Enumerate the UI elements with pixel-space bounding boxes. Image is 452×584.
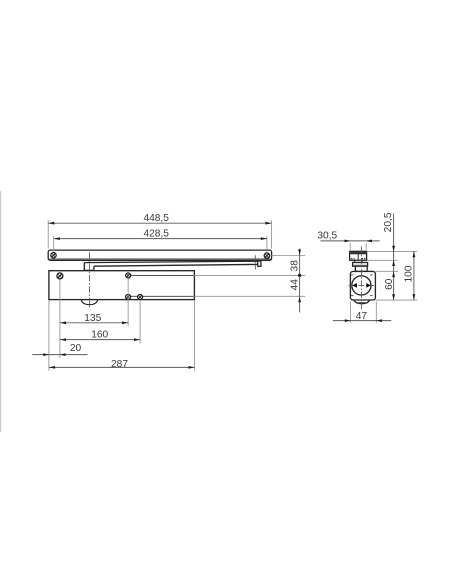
- dim text 44: [289, 279, 300, 291]
- svg-text:47: 47: [356, 311, 368, 322]
- body screw top-left: [57, 273, 63, 279]
- slide arm bottom edge: [94, 264, 258, 266]
- body interior line lower screws: [128, 295, 194, 297]
- arm end cap: [258, 261, 261, 266]
- svg-text:60: 60: [384, 278, 395, 290]
- pinion boss below body: [81, 300, 97, 305]
- dim text 47: [356, 311, 368, 322]
- slide rail: [48, 250, 271, 260]
- extension line rail screw right: [270, 255, 305, 257]
- dim 47 extension right: [375, 302, 377, 323]
- dim 30,5 extension right: [365, 243, 367, 250]
- spring power circle: [352, 276, 371, 295]
- dim text 20,5: [383, 212, 394, 232]
- body interior line upper screws: [128, 274, 194, 276]
- slider neck: [355, 260, 362, 262]
- extension line left screw down: [59, 280, 61, 358]
- svg-text:135: 135: [84, 313, 101, 324]
- svg-text:448,5: 448,5: [143, 213, 169, 224]
- arm slider shoe: [84, 263, 95, 271]
- dim line 38 and 44 vertical: [298, 249, 301, 313]
- dim text 135: [84, 313, 101, 324]
- dim text 428,5: [143, 229, 169, 240]
- svg-text:20,5: 20,5: [383, 212, 394, 232]
- dim 30,5 extension left: [349, 243, 351, 250]
- dim line 448,5: [48, 222, 271, 225]
- screw hole mark bottom-right: [370, 295, 373, 297]
- svg-text:44: 44: [289, 279, 300, 291]
- dim text 287: [111, 359, 128, 370]
- dim text 448,5: [143, 213, 169, 224]
- svg-text:428,5: 428,5: [143, 229, 169, 240]
- dim text 20: [70, 343, 82, 354]
- extension body bottom right: [375, 299, 417, 301]
- circle horizontal centerline: [349, 284, 375, 286]
- dim text 160: [91, 330, 108, 341]
- screw hole mark bottom-left: [351, 295, 354, 297]
- dim 428,5 extension left: [53, 236, 55, 252]
- dim text 30,5: [317, 231, 337, 242]
- svg-text:287: 287: [111, 359, 128, 370]
- dim line 160: [60, 338, 140, 341]
- dim line 20: [32, 353, 87, 356]
- adjust arrow right: [366, 283, 371, 288]
- dim text 100: [403, 265, 414, 282]
- dim 428,5 extension right: [266, 236, 268, 252]
- arm cross-section: [353, 263, 368, 267]
- extension line screw x140 down: [139, 300, 141, 343]
- extension line screws x128 down: [127, 278, 129, 326]
- body screw bottom-right: [138, 295, 143, 300]
- svg-text:100: 100: [403, 265, 414, 282]
- side vertical centerline: [360, 247, 362, 310]
- dim line 47: [333, 319, 391, 322]
- dim line 30,5: [321, 240, 380, 243]
- page left edge scan line: [0, 191, 2, 432]
- extension rail bottom right: [367, 259, 398, 261]
- dim line 20,5 and 60 vertical: [392, 214, 395, 301]
- extension rail top right: [367, 250, 417, 252]
- dim text 38: [289, 260, 300, 272]
- closer body: [49, 271, 195, 300]
- svg-text:160: 160: [91, 330, 108, 341]
- dim line 428,5: [54, 237, 267, 240]
- extension body top right: [376, 270, 398, 272]
- rail screw right: [264, 253, 269, 258]
- slide arm top edge: [84, 261, 258, 262]
- side pinion foot: [354, 300, 370, 304]
- extension line body right down: [194, 300, 196, 371]
- arm pivot centerline: [254, 255, 256, 269]
- extension line upper screws right: [194, 274, 305, 276]
- rail cross-section: [350, 251, 367, 260]
- rail screw left: [51, 253, 56, 258]
- dim 448,5 extension right: [271, 220, 273, 249]
- screw hole mark top-right: [370, 274, 373, 276]
- svg-text:20: 20: [70, 343, 82, 354]
- dim line 287: [49, 366, 195, 369]
- extension line lower screws right: [194, 295, 305, 297]
- body screw bottom-left: [126, 295, 131, 300]
- dim line 135: [60, 321, 128, 324]
- extension line body left down: [48, 300, 50, 371]
- dim 47 extension left: [350, 302, 352, 323]
- body screw top-right: [126, 273, 131, 278]
- dim line 100 vertical: [413, 251, 416, 300]
- adjust arrow left: [352, 283, 357, 288]
- body centerline: [89, 252, 91, 308]
- side body: [350, 271, 375, 300]
- dim 448,5 extension left: [47, 220, 49, 248]
- spindle block: [355, 266, 367, 271]
- svg-text:38: 38: [289, 260, 300, 272]
- svg-text:30,5: 30,5: [317, 231, 337, 242]
- screw hole mark top-left: [351, 274, 354, 276]
- dim text 60: [384, 278, 395, 290]
